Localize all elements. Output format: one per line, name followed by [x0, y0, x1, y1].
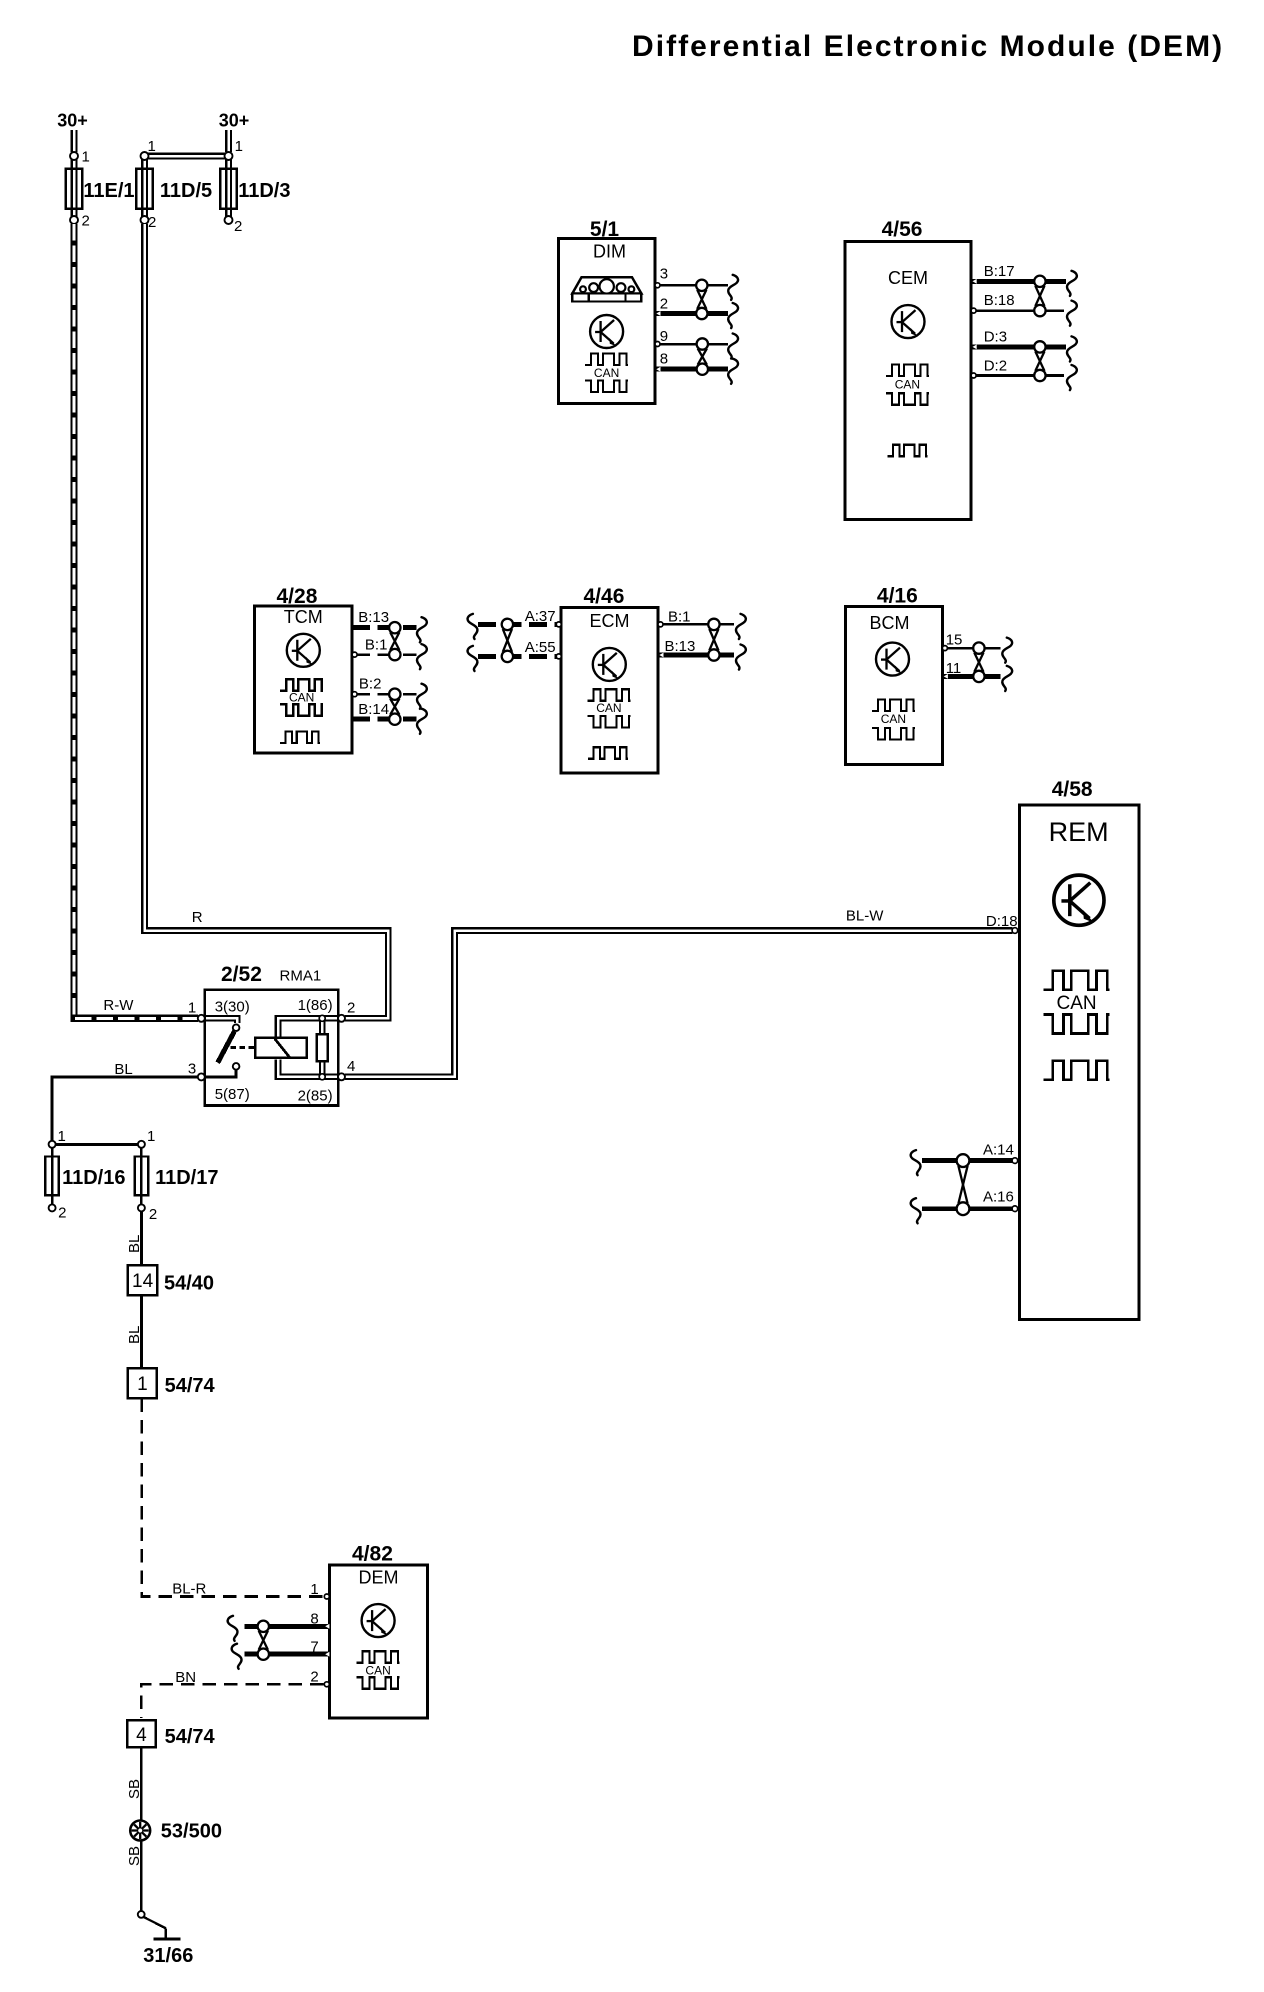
- control module DIM 5/1 box: [558, 238, 655, 403]
- wire label BL-R: [172, 1581, 206, 1598]
- svg-text:B:17: B:17: [984, 263, 1015, 280]
- connector label 54/74: [165, 1375, 216, 1397]
- svg-text:RMA1: RMA1: [280, 968, 322, 985]
- instrument cluster icon: [572, 277, 641, 301]
- module name ECM: [590, 611, 630, 631]
- svg-text:3: 3: [660, 266, 668, 283]
- CAN symbol of BCM: [872, 700, 915, 740]
- svg-text:R-W: R-W: [103, 997, 134, 1014]
- svg-text:2: 2: [660, 296, 668, 313]
- pin label 15 of BCM: [946, 632, 963, 649]
- svg-text:A:55: A:55: [525, 639, 556, 656]
- pin label 2 of DIM: [660, 296, 668, 313]
- connector 54/74 pin 1: [128, 1368, 157, 1398]
- svg-text:R: R: [192, 909, 203, 926]
- svg-text:1: 1: [82, 149, 90, 166]
- ground label 31/66: [143, 1945, 193, 1967]
- wire DIM pin 8: [655, 367, 728, 372]
- relay switch top contact: [233, 1024, 240, 1031]
- wire TCM pin B:1 (dashed): [352, 652, 416, 657]
- continuation squiggle ECM B:1: [736, 614, 746, 639]
- svg-text:2: 2: [347, 1000, 355, 1017]
- wire BN dashed from DEM pin 2 to connector 54/74 pin 4: [141, 1684, 323, 1718]
- wire R-W from fuse 11E/1 pin2 down to relay pin 1 (striped): [74, 224, 198, 1018]
- svg-text:54/74: 54/74: [165, 1726, 216, 1748]
- wire label BL (rotated): [126, 1235, 143, 1253]
- pulse symbol of ECM: [588, 747, 628, 759]
- svg-text:BN: BN: [175, 1669, 196, 1686]
- pin label 11 of BCM: [946, 660, 962, 677]
- svg-text:4/56: 4/56: [882, 218, 923, 241]
- svg-text:15: 15: [946, 632, 963, 649]
- continuation squiggle REM A:16: [911, 1198, 921, 1223]
- wire battery stub to fuse 11D/3 pin 1: [225, 130, 232, 152]
- svg-text:2: 2: [234, 218, 242, 235]
- continuation squiggle DIM pin 8: [728, 359, 738, 384]
- wire CEM pin D:3: [971, 345, 1066, 350]
- pin 2 label of fuse 11E/1: [82, 213, 90, 230]
- control module REM 4/58 box: [1020, 805, 1139, 1319]
- wire BL-R dashed from 54/74 down to DEM pin 1: [142, 1399, 324, 1597]
- relay coil: [255, 1038, 307, 1058]
- svg-text:REM: REM: [1049, 817, 1109, 847]
- wire DEM pin 7: [244, 1652, 329, 1657]
- svg-text:7: 7: [310, 1639, 318, 1656]
- pin circle ECM A:37: [556, 622, 561, 627]
- pin circle ECM A:55: [556, 654, 561, 659]
- splice label 53/500: [161, 1821, 222, 1843]
- module name REM: [1049, 817, 1109, 847]
- module id label 4/16: [877, 585, 918, 608]
- pin label A:37 of ECM: [525, 608, 556, 625]
- wire CEM pin B:17: [971, 279, 1066, 284]
- svg-text:4/82: 4/82: [352, 1542, 393, 1565]
- svg-text:4/58: 4/58: [1052, 778, 1093, 801]
- svg-text:Differential Electronic Module: Differential Electronic Module (DEM): [632, 30, 1224, 63]
- wire R from fuse 11D/5 pin2 down, right, down to relay pin 2: [145, 224, 389, 1018]
- wire label SB (rotated, second): [126, 1846, 143, 1866]
- fuse 11D/5: [136, 152, 212, 224]
- module id label 4/56: [882, 218, 923, 241]
- relay id label 2/52: [221, 963, 262, 986]
- wire SB from splice to ground: [140, 1841, 143, 1912]
- svg-text:A:14: A:14: [983, 1142, 1014, 1159]
- pin circle A:14: [1012, 1158, 1018, 1164]
- wire joining fuse 11D/16 pin1 and 11D/17 pin1: [52, 1143, 142, 1146]
- svg-text:B:18: B:18: [984, 292, 1015, 309]
- relay pin label 5(87): [215, 1086, 250, 1103]
- diagnostic K symbol of TCM: [287, 634, 320, 667]
- svg-text:3(30): 3(30): [215, 999, 250, 1016]
- relay resistor branch bottom: [319, 1063, 326, 1077]
- twisted pair symbol TCM B:13-B:1: [389, 622, 400, 660]
- relay coil winding wire (pin 2 side top): [278, 1018, 337, 1036]
- pin label B:2 of TCM: [359, 676, 382, 693]
- ground 31/66: [138, 1911, 181, 1939]
- title: Differential Electronic Module (DEM): [632, 30, 1224, 63]
- svg-text:CAN: CAN: [594, 366, 619, 380]
- svg-text:DEM: DEM: [359, 1568, 399, 1588]
- pin 2 label of fuse 11D/16: [58, 1205, 66, 1222]
- svg-text:B:1: B:1: [668, 609, 691, 626]
- wire label R: [192, 909, 203, 926]
- pin label A:16 of REM: [983, 1189, 1014, 1206]
- svg-text:11D/3: 11D/3: [238, 180, 290, 202]
- CAN symbol of ECM: [587, 689, 630, 727]
- twisted pair symbol DEM 8-7: [258, 1621, 269, 1660]
- module name TCM: [284, 607, 323, 627]
- pin circle and label 2 of DEM: [310, 1669, 329, 1687]
- svg-text:DIM: DIM: [593, 242, 626, 262]
- node 30+ (battery feed, right): [219, 111, 250, 131]
- fuse 11D/16: [45, 1141, 125, 1212]
- relay switch bottom contact: [233, 1063, 240, 1070]
- wire BL from relay pin 3 left and down to fuse 11D/16 pin 1: [52, 1077, 198, 1141]
- wire label BL-W: [846, 908, 884, 925]
- wire label SB (rotated): [126, 1779, 143, 1799]
- fuse 11D/3: [220, 152, 290, 224]
- twisted pair symbol DIM pins 3-2: [696, 280, 707, 320]
- pin label D:2 of CEM: [984, 358, 1007, 375]
- twisted pair symbol BCM 15-11: [973, 642, 984, 682]
- svg-text:54/40: 54/40: [164, 1272, 214, 1294]
- twisted pair symbol ECM B:1-B:13: [708, 619, 719, 661]
- relay pin label 1(86): [298, 997, 333, 1014]
- pin 2 label of fuse 11D/3: [234, 218, 242, 235]
- pin label 3 of DIM: [660, 266, 668, 283]
- svg-text:CAN: CAN: [1057, 993, 1097, 1014]
- splice 53/500: [130, 1821, 150, 1841]
- twisted pair symbol DIM pins 9-8: [697, 338, 708, 375]
- continuation squiggle CEM B:17: [1067, 271, 1077, 296]
- svg-text:53/500: 53/500: [161, 1821, 222, 1843]
- svg-text:TCM: TCM: [284, 607, 323, 627]
- svg-text:SB: SB: [126, 1846, 143, 1866]
- wire BCM pin 15: [942, 646, 1000, 651]
- pin circle and label 1 of DEM: [310, 1581, 329, 1599]
- continuation squiggle CEM D:3: [1067, 336, 1077, 361]
- pin label B:18 of CEM: [984, 292, 1015, 309]
- svg-text:4/46: 4/46: [584, 585, 625, 608]
- control module TCM 4/28 box: [255, 606, 353, 753]
- pin label 9 of DIM: [660, 328, 668, 345]
- continuation squiggle REM A:14: [911, 1150, 921, 1175]
- node 30+ (battery feed, left): [57, 111, 88, 131]
- svg-text:54/74: 54/74: [165, 1375, 216, 1397]
- control module DEM 4/82 box: [329, 1565, 427, 1718]
- diagnostic K symbol of DIM: [590, 315, 623, 348]
- relay name label RMA1: [280, 968, 322, 985]
- pulse symbol of REM: [1044, 1061, 1110, 1080]
- relay junction top: [319, 1015, 325, 1021]
- pin label A:14 of REM: [983, 1142, 1014, 1159]
- pin label B:14 of TCM: [358, 701, 389, 718]
- svg-text:BL-W: BL-W: [846, 908, 884, 925]
- svg-text:1: 1: [148, 138, 156, 155]
- twisted pair symbol REM A:14-A:16: [957, 1154, 970, 1215]
- continuation squiggle TCM B:14: [417, 709, 427, 734]
- pin label 8 of DEM: [310, 1611, 318, 1628]
- continuation squiggle DIM pin 3: [728, 275, 738, 300]
- wire label R-W: [103, 997, 134, 1014]
- wire TCM pin B:13 (dashed): [352, 625, 416, 630]
- relay actuation dashed link: [231, 1046, 255, 1049]
- connector 54/74 pin 4: [127, 1720, 156, 1747]
- svg-text:BL-R: BL-R: [172, 1581, 206, 1598]
- svg-text:2: 2: [310, 1669, 318, 1686]
- svg-text:CAN: CAN: [881, 712, 906, 726]
- svg-text:1: 1: [188, 1000, 196, 1017]
- svg-text:CAN: CAN: [895, 378, 920, 392]
- diagnostic K symbol of ECM: [593, 648, 626, 681]
- pulse symbol of TCM: [280, 731, 320, 743]
- pin label B:1 of ECM: [668, 609, 691, 626]
- svg-text:1: 1: [58, 1128, 66, 1145]
- svg-text:11D/17: 11D/17: [155, 1167, 218, 1189]
- pin 1 label of fuse 11E/1: [82, 149, 90, 166]
- module name CEM: [888, 268, 928, 288]
- svg-text:31/66: 31/66: [143, 1945, 193, 1967]
- connector label 54/40: [164, 1272, 214, 1294]
- wire SB from 54/74 pin4 to splice 53/500: [140, 1748, 143, 1825]
- module id label 4/58: [1052, 778, 1093, 801]
- relay resistor branch top: [319, 1018, 326, 1033]
- svg-text:5(87): 5(87): [215, 1086, 250, 1103]
- svg-text:1: 1: [147, 1128, 155, 1145]
- continuation squiggle TCM B:13: [417, 617, 427, 642]
- wire fuse 11D/5 pin1 to fuse 11D/3 pin1: [145, 153, 229, 160]
- pin 1 label of fuse 11D/16: [58, 1128, 66, 1145]
- CAN symbol of TCM: [280, 679, 323, 716]
- continuation squiggle CEM B:18: [1067, 301, 1077, 326]
- wire CEM pin B:18: [971, 308, 1064, 313]
- diagnostic K symbol of BCM: [876, 643, 909, 676]
- pin label D:3 of CEM: [984, 329, 1007, 346]
- svg-text:1: 1: [310, 1581, 318, 1598]
- relay pin label 2(85): [298, 1088, 333, 1105]
- control module BCM 4/16 box: [845, 607, 942, 765]
- relay coil winding wire (pin 4 side bottom): [278, 1059, 337, 1077]
- svg-text:D:3: D:3: [984, 329, 1007, 346]
- continuation squiggle ECM A:37: [468, 614, 478, 639]
- module name BCM: [870, 613, 910, 633]
- twisted pair symbol CEM B:17-B:18: [1034, 276, 1045, 317]
- wire BL from 54/40 to 54/74: [140, 1295, 143, 1368]
- svg-text:2: 2: [148, 214, 156, 231]
- wire REM pin A:14: [922, 1158, 1013, 1163]
- diagnostic K symbol of DEM: [362, 1604, 395, 1637]
- wire ECM pin B:1: [658, 622, 734, 627]
- wire label BN: [175, 1669, 196, 1686]
- svg-text:1(86): 1(86): [298, 997, 333, 1014]
- pulse symbol of CEM: [887, 445, 927, 457]
- wire battery stub to fuse 11E/1 pin 1: [71, 130, 78, 152]
- relay switch to pin 3 wire: [206, 1070, 236, 1077]
- relay 2/52 RMA1 box: [205, 990, 339, 1106]
- CAN symbol of DIM: [585, 354, 628, 392]
- svg-text:2: 2: [82, 213, 90, 230]
- svg-text:2: 2: [58, 1205, 66, 1222]
- svg-text:2/52: 2/52: [221, 963, 262, 986]
- svg-text:8: 8: [310, 1611, 318, 1628]
- pin circle and label D:18 of REM: [986, 913, 1018, 933]
- svg-text:BL: BL: [126, 1235, 143, 1253]
- svg-text:CAN: CAN: [596, 701, 621, 715]
- twisted pair symbol TCM B:2-B:14: [389, 689, 400, 725]
- pin label B:13 of TCM: [358, 609, 389, 626]
- svg-text:14: 14: [132, 1271, 154, 1292]
- pin 1 label of fuse 11D/5: [148, 138, 156, 155]
- svg-text:BL: BL: [126, 1326, 143, 1344]
- pin label B:1 of TCM: [365, 637, 388, 654]
- diagnostic K symbol of REM: [1054, 875, 1104, 925]
- pin label B:13 of ECM: [665, 638, 696, 655]
- CAN symbol of REM: [1044, 971, 1110, 1034]
- svg-text:B:13: B:13: [358, 609, 389, 626]
- wire BL from fuse 11D/17 pin2 to connector 54/40: [140, 1212, 143, 1266]
- module id label 4/28: [277, 585, 318, 608]
- svg-text:B:1: B:1: [365, 637, 388, 654]
- wire DIM pin 9: [655, 342, 728, 347]
- pin 1 label of fuse 11D/3: [235, 138, 243, 155]
- CAN symbol of CEM: [886, 365, 929, 405]
- svg-text:30+: 30+: [57, 111, 88, 131]
- continuation squiggle ECM A:55: [468, 646, 478, 671]
- svg-text:ECM: ECM: [590, 611, 630, 631]
- svg-text:4/28: 4/28: [277, 585, 318, 608]
- CAN symbol of DEM: [357, 1651, 400, 1689]
- svg-text:D:18: D:18: [986, 913, 1018, 930]
- svg-text:11: 11: [946, 660, 962, 677]
- wire BCM pin 11: [942, 674, 1000, 679]
- pin label A:55 of ECM: [525, 639, 556, 656]
- pin 2 label of fuse 11D/5: [148, 214, 156, 231]
- relay switch arm: [218, 1031, 235, 1062]
- continuation squiggle DIM pin 9: [728, 334, 738, 359]
- wire DIM pin 2: [655, 311, 728, 316]
- fuse 11D/17: [135, 1141, 219, 1212]
- module name DIM: [593, 242, 626, 262]
- svg-text:BL: BL: [114, 1061, 132, 1078]
- pin 1 label of fuse 11D/17: [147, 1128, 155, 1145]
- svg-text:3: 3: [188, 1061, 196, 1078]
- wire ECM pin A:55 (dashed, from left): [478, 654, 561, 659]
- continuation squiggle ECM B:13: [736, 645, 746, 670]
- svg-text:5/1: 5/1: [590, 218, 620, 241]
- svg-text:11E/1: 11E/1: [83, 180, 134, 202]
- relay pin 3 terminal and label: [188, 1061, 205, 1081]
- svg-text:A:16: A:16: [983, 1189, 1014, 1206]
- wire DEM pin 8: [244, 1624, 329, 1629]
- pin label 8 of DIM: [660, 351, 668, 368]
- svg-text:9: 9: [660, 328, 668, 345]
- wire TCM pin B:14 (dashed): [352, 717, 416, 722]
- relay switch feed wire from pin 1: [206, 1018, 237, 1023]
- wire label BL: [114, 1061, 132, 1078]
- svg-text:CAN: CAN: [365, 1664, 390, 1678]
- wire label BL (rotated, second): [126, 1326, 143, 1344]
- fuse 11E/1: [66, 152, 135, 224]
- svg-text:D:2: D:2: [984, 358, 1007, 375]
- connector label 54/74 (second): [165, 1726, 216, 1748]
- control module CEM 4/56 box: [845, 241, 971, 519]
- module name DEM: [359, 1568, 399, 1588]
- svg-text:BCM: BCM: [870, 613, 910, 633]
- relay pin 1 terminal and label: [188, 1000, 205, 1022]
- twisted pair symbol CEM D:3-D:2: [1034, 341, 1045, 381]
- continuation squiggle CEM D:2: [1067, 365, 1077, 390]
- relay pin 2 terminal and label: [338, 1000, 355, 1022]
- relay pin label 3(30): [215, 999, 250, 1016]
- pin circle A:16: [1012, 1206, 1018, 1212]
- svg-text:CAN: CAN: [289, 691, 314, 705]
- wire REM pin A:16: [922, 1207, 1013, 1211]
- wire ECM pin A:37 (dashed, from left): [478, 622, 561, 627]
- svg-text:4: 4: [347, 1058, 355, 1075]
- pin label 7 of DEM: [310, 1639, 318, 1656]
- svg-text:B:13: B:13: [665, 638, 696, 655]
- module id label 5/1: [590, 218, 620, 241]
- svg-text:11D/16: 11D/16: [62, 1167, 125, 1189]
- wire DIM pin 3: [655, 283, 728, 288]
- continuation squiggle TCM B:1: [417, 644, 427, 669]
- svg-text:30+: 30+: [219, 111, 250, 131]
- twisted pair symbol ECM A:37-A:55: [502, 619, 513, 662]
- module id label 4/82: [352, 1542, 393, 1565]
- svg-text:2: 2: [149, 1206, 157, 1223]
- pin 2 label of fuse 11D/17: [149, 1206, 157, 1223]
- diagnostic K symbol of CEM: [892, 305, 925, 338]
- svg-text:4/16: 4/16: [877, 585, 918, 608]
- svg-text:2(85): 2(85): [298, 1088, 333, 1105]
- svg-text:SB: SB: [126, 1779, 143, 1799]
- continuation squiggle DEM 8: [228, 1616, 238, 1641]
- svg-text:1: 1: [137, 1374, 148, 1395]
- continuation squiggle TCM B:2: [417, 684, 427, 709]
- continuation squiggle BCM 11: [1002, 666, 1012, 691]
- wire TCM pin B:2 (dashed): [352, 692, 416, 697]
- relay suppression resistor: [317, 1034, 328, 1061]
- module id label 4/46: [584, 585, 625, 608]
- continuation squiggle DEM 7: [232, 1644, 242, 1669]
- control module ECM 4/46 box: [561, 608, 658, 774]
- svg-text:B:14: B:14: [358, 701, 389, 718]
- relay junction bottom: [319, 1074, 325, 1080]
- svg-text:1: 1: [235, 138, 243, 155]
- relay pin 4 terminal and label: [338, 1058, 355, 1080]
- wire BL-W from relay pin 4 to REM pin D:18: [345, 931, 1013, 1077]
- wire ECM pin B:13: [658, 653, 734, 658]
- connector 54/40 pin 14: [128, 1265, 157, 1295]
- svg-text:8: 8: [660, 351, 668, 368]
- svg-text:B:2: B:2: [359, 676, 382, 693]
- wire CEM pin D:2: [971, 373, 1064, 378]
- svg-text:4: 4: [136, 1725, 147, 1746]
- svg-text:CEM: CEM: [888, 268, 928, 288]
- svg-text:11D/5: 11D/5: [160, 180, 212, 202]
- continuation squiggle DIM pin 2: [728, 303, 738, 328]
- continuation squiggle BCM 15: [1002, 638, 1012, 663]
- svg-text:A:37: A:37: [525, 608, 556, 625]
- pin label B:17 of CEM: [984, 263, 1015, 280]
